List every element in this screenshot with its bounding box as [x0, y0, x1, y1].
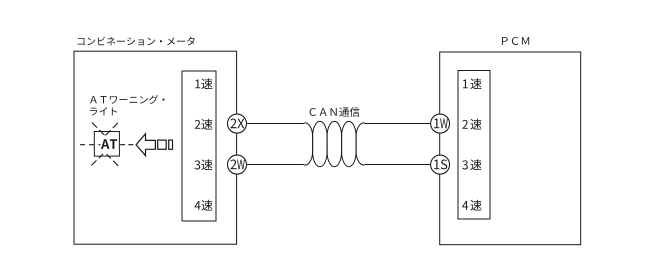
AT warning lamp square	[94, 132, 119, 157]
lamp ray bottom-right	[107, 154, 119, 166]
label: pin 1W	[434, 119, 448, 129]
wire: 2X/2W to twisted pair (left bracket)	[247, 123, 313, 165]
label: meter gear 4速	[195, 200, 213, 211]
meter gear-signal inner box	[182, 71, 216, 221]
connector pin 2X circle	[228, 114, 247, 133]
small narrow rect after square	[169, 140, 173, 149]
label: combination meter title (コンビネーション・メータ)	[78, 37, 195, 46]
small square after arrow	[158, 140, 167, 149]
lamp dashed horizontal line left	[80, 144, 101, 146]
PCM gear-signal inner box	[458, 71, 490, 220]
label: pin 2W	[230, 160, 244, 170]
twisted pair loop 2	[327, 121, 342, 166]
block arrow pointing left	[136, 134, 155, 156]
wire: twisted pair to 1W/1S (right bracket)	[356, 123, 431, 165]
label: meter gear 2速	[195, 119, 213, 130]
connector pin 1W circle	[431, 114, 450, 133]
lamp dashed horizontal line right	[120, 144, 133, 146]
label: pin 2X	[230, 119, 244, 129]
label: meter gear 3速	[195, 159, 213, 170]
label: CAN communication (ＣＡＮ通信)	[310, 107, 360, 117]
combination meter box	[74, 51, 237, 244]
connector pin 1S circle	[431, 155, 450, 174]
label: PCM gear 2速	[462, 119, 481, 130]
twisted pair loop 3	[342, 121, 357, 166]
label: PCM gear 4速	[462, 200, 481, 211]
label: pin 1S	[434, 160, 447, 170]
lamp ray top-left	[92, 123, 105, 136]
connector pin 2W circle	[228, 155, 247, 174]
label: AT warning light line1 (ＡＴワーニング・)	[90, 95, 164, 104]
label: meter gear 1速	[195, 78, 212, 89]
label: PCM title (ＰＣＭ)	[502, 37, 529, 45]
label: PCM gear 3速	[462, 159, 481, 170]
label: AT (bold, in lamp)	[101, 139, 117, 149]
lamp ray top-right	[105, 123, 118, 135]
twisted pair loop 1	[313, 121, 328, 166]
label: PCM gear 1速	[463, 78, 482, 89]
lamp ray bottom-left	[91, 154, 103, 166]
PCM box	[440, 52, 581, 245]
label: AT warning light line2 (ライト)	[90, 107, 117, 115]
